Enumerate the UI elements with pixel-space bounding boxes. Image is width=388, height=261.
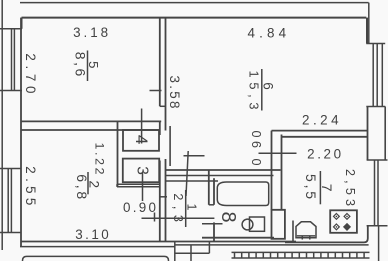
stairwell rounded box bottom left — [23, 256, 169, 261]
right wall pier box between windows left edge — [367, 107, 369, 161]
dim leader 0.90 vertical area — [259, 152, 297, 154]
svg-text:1.22: 1.22 — [93, 143, 107, 175]
svg-text:2,53: 2,53 — [343, 169, 357, 206]
left wall inner face — [20, 18, 22, 247]
wall band left cap — [116, 184, 118, 187]
burner 1 — [334, 214, 340, 220]
hall door frame line — [169, 126, 171, 166]
svg-text:2.55: 2.55 — [23, 166, 38, 205]
toilet bowl — [296, 222, 316, 238]
bathroom top wall upper line — [166, 169, 281, 171]
room1 label fraction bar — [185, 190, 187, 227]
burner 3 — [334, 224, 340, 230]
dimension tick at y90 — [150, 90, 162, 92]
bathroom top wall mid line — [166, 175, 274, 177]
kitchen west wall lower stub — [292, 221, 294, 242]
closet 3 leader line — [142, 172, 144, 201]
kitchen west wall — [281, 135, 283, 210]
wall between room5 and room2 upper line — [21, 120, 161, 122]
stove — [330, 210, 357, 233]
svg-text:6: 6 — [261, 82, 276, 90]
closet 4 leader line — [141, 109, 143, 144]
svg-text:7: 7 — [319, 184, 335, 192]
bathroom west wall inner upper — [213, 178, 215, 205]
window W6 outer line — [381, 44, 383, 107]
window W6 bottom cap — [366, 106, 385, 108]
room2 label fraction bar — [87, 172, 89, 194]
svg-text:3.10: 3.10 — [75, 227, 109, 242]
window W2 top cap — [0, 168, 21, 170]
window W2 bottom cap — [0, 232, 21, 234]
building top outline line — [20, 2, 369, 4]
bathroom west wall outer upper — [208, 170, 210, 205]
svg-text:1: 1 — [184, 203, 198, 210]
window W6 top cap — [366, 43, 385, 45]
svg-text:8,6: 8,6 — [73, 52, 89, 77]
window W5 top cap — [0, 28, 22, 30]
svg-text:4.84: 4.84 — [248, 26, 287, 41]
window W5 glazing line a — [11, 29, 13, 91]
wall band below closet3 line1 — [117, 183, 160, 185]
shaft vertical A — [271, 131, 273, 171]
svg-text:2.20: 2.20 — [307, 147, 341, 162]
room6 label fraction bar — [261, 69, 263, 111]
building outer edge right lower — [378, 226, 380, 261]
kitchen floor line with rounded corner — [285, 226, 368, 243]
room6 bottom wall lower line — [282, 136, 368, 138]
toilet tick b — [309, 236, 311, 240]
wall band below closet3 line2 — [117, 186, 160, 188]
apartment top-left corner drop — [21, 18, 23, 29]
apartment top wall — [22, 17, 367, 19]
entrance landing line — [175, 252, 210, 254]
window W6 glazing a — [372, 44, 374, 107]
central long wall left line mid segment — [159, 121, 161, 135]
window W2 glazing line a — [7, 169, 9, 233]
svg-text:2.70: 2.70 — [23, 53, 38, 93]
bathroom east wall — [271, 170, 273, 210]
room5 label fraction bar — [87, 51, 89, 82]
burner 4 filled — [344, 224, 350, 230]
window W5 glazing line b — [13, 29, 15, 91]
wall between room5 and room2 lower line — [21, 129, 160, 131]
bottom wall outer line left — [20, 246, 175, 248]
svg-text:2.24: 2.24 — [302, 113, 339, 128]
ladder strip top line — [232, 251, 370, 253]
closet 3 box — [123, 159, 159, 183]
toilet seat line — [297, 235, 315, 237]
room1 label leader — [186, 151, 188, 196]
room 6 right wall upper — [366, 18, 368, 44]
window W2 glazing line b — [10, 169, 12, 233]
central long wall left line upper segment — [159, 18, 161, 107]
building outer left edge — [1, 0, 3, 250]
dimension line 0.90 room2 — [142, 217, 215, 219]
room1 label leader tick — [184, 155, 205, 157]
central long wall right line upper — [165, 18, 167, 131]
room8 label leader — [202, 223, 223, 225]
central long wall right line lower — [165, 159, 167, 242]
room6 bottom wall upper line — [272, 130, 368, 132]
pier top stub — [272, 209, 285, 211]
sink rect — [250, 217, 265, 231]
svg-text:3.58: 3.58 — [167, 76, 182, 109]
toilet tick a — [301, 236, 303, 240]
bathroom bottom wall inner — [202, 237, 274, 239]
bathroom door jamb — [209, 204, 214, 206]
burner 2 — [344, 214, 350, 220]
svg-text:0,90: 0,90 — [250, 131, 264, 166]
svg-text:2,3: 2,3 — [171, 193, 185, 222]
svg-text:4: 4 — [132, 135, 151, 144]
central long wall left line lower segment — [159, 161, 161, 242]
svg-text:3.18: 3.18 — [73, 25, 108, 40]
kitchen window glazing b — [377, 160, 379, 226]
pier rectangle — [272, 210, 285, 239]
right wall pier box between windows right edge — [384, 107, 386, 161]
ladder ticks — [235, 252, 365, 258]
entrance vertical c — [208, 242, 210, 254]
kitchen window top cap — [367, 159, 388, 161]
bathroom west wall lower segment — [213, 222, 215, 241]
svg-text:6,8: 6,8 — [74, 174, 90, 199]
svg-text:0.90: 0.90 — [123, 200, 156, 215]
kitchen window glazing a — [374, 160, 376, 226]
bathtub — [217, 182, 268, 206]
sink bowl circle — [242, 219, 253, 230]
entrance vertical a — [174, 242, 176, 261]
building top-right corner vertical — [368, 3, 370, 44]
svg-text:3: 3 — [134, 166, 151, 175]
svg-text:5,5: 5,5 — [303, 174, 319, 199]
window W5 bottom cap — [0, 90, 22, 92]
closet box 4 — [123, 130, 159, 151]
bathroom top wall inner line — [166, 180, 218, 182]
dimension tick at y198 — [159, 196, 167, 198]
room2 right wall — [117, 122, 119, 187]
entrance vertical b — [190, 245, 192, 261]
room7 label fraction bar — [319, 171, 321, 204]
dimension tick 0.90 — [154, 213, 156, 222]
bottom wall outer line right — [175, 244, 369, 246]
ladder strip bottom line — [232, 257, 370, 259]
bottom wall inner line — [21, 241, 296, 243]
window W6 glazing b — [376, 44, 378, 107]
door jamb bridge on central wall — [160, 105, 166, 107]
svg-text:8: 8 — [217, 211, 239, 222]
kitchen window bottom cap — [367, 225, 388, 227]
